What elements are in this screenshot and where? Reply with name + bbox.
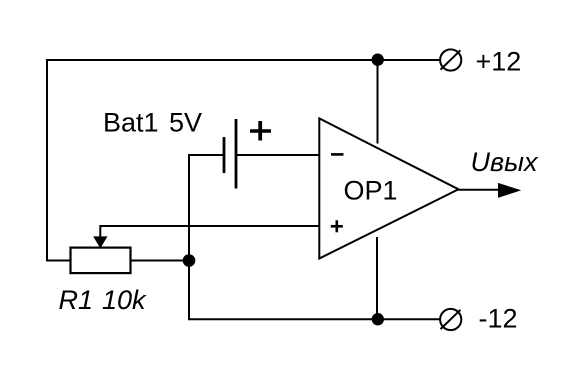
svg-text:+12: +12: [476, 47, 522, 77]
svg-text:5V: 5V: [169, 107, 202, 137]
junction dot potentiometer branch: [183, 254, 196, 267]
op-amp non-inverting input plus mark: [331, 220, 343, 232]
potentiometer R1 body: [71, 248, 131, 274]
svg-text:R1: R1: [59, 285, 94, 315]
junction dot top rail: [372, 54, 384, 66]
output wire from op-amp: [457, 189, 505, 191]
wire potentiometer right terminal to junction: [130, 260, 191, 262]
svg-text:10k: 10k: [102, 285, 147, 315]
op-amp inverting input minus mark: [331, 153, 344, 156]
wire top rail from left corner to +12 terminal: [46, 59, 440, 61]
svg-text:Uвых: Uвых: [471, 147, 539, 177]
terminal -12 circle with slash: [440, 309, 461, 330]
wire battery positive to op-amp - input: [236, 154, 320, 156]
wire wiper up and across to op-amp + input: [100, 226, 319, 238]
output arrowhead: [498, 183, 521, 198]
svg-text:Bat1: Bat1: [103, 108, 159, 138]
wire op-amp bottom power pin: [376, 237, 378, 320]
battery plus polarity mark: [250, 121, 271, 141]
junction dot bottom rail: [372, 313, 384, 325]
battery Bat1 positive plate (long): [235, 119, 238, 189]
wire battery negative to vertical branch: [189, 154, 225, 156]
op-amp U1 triangle body: [319, 118, 458, 258]
battery Bat1 negative plate (short): [223, 137, 226, 173]
potentiometer wiper arrowhead: [93, 236, 107, 248]
wire bottom rail to -12 terminal: [188, 318, 440, 320]
wire vertical branch battery-minus down to bottom rail: [188, 154, 190, 320]
svg-text:-12: -12: [479, 304, 518, 334]
wire op-amp top power pin: [377, 59, 379, 144]
terminal +12 circle with slash: [440, 49, 461, 70]
svg-text:OP1: OP1: [344, 176, 398, 206]
wire left into potentiometer: [46, 260, 72, 262]
wire left vertical side: [46, 59, 48, 262]
